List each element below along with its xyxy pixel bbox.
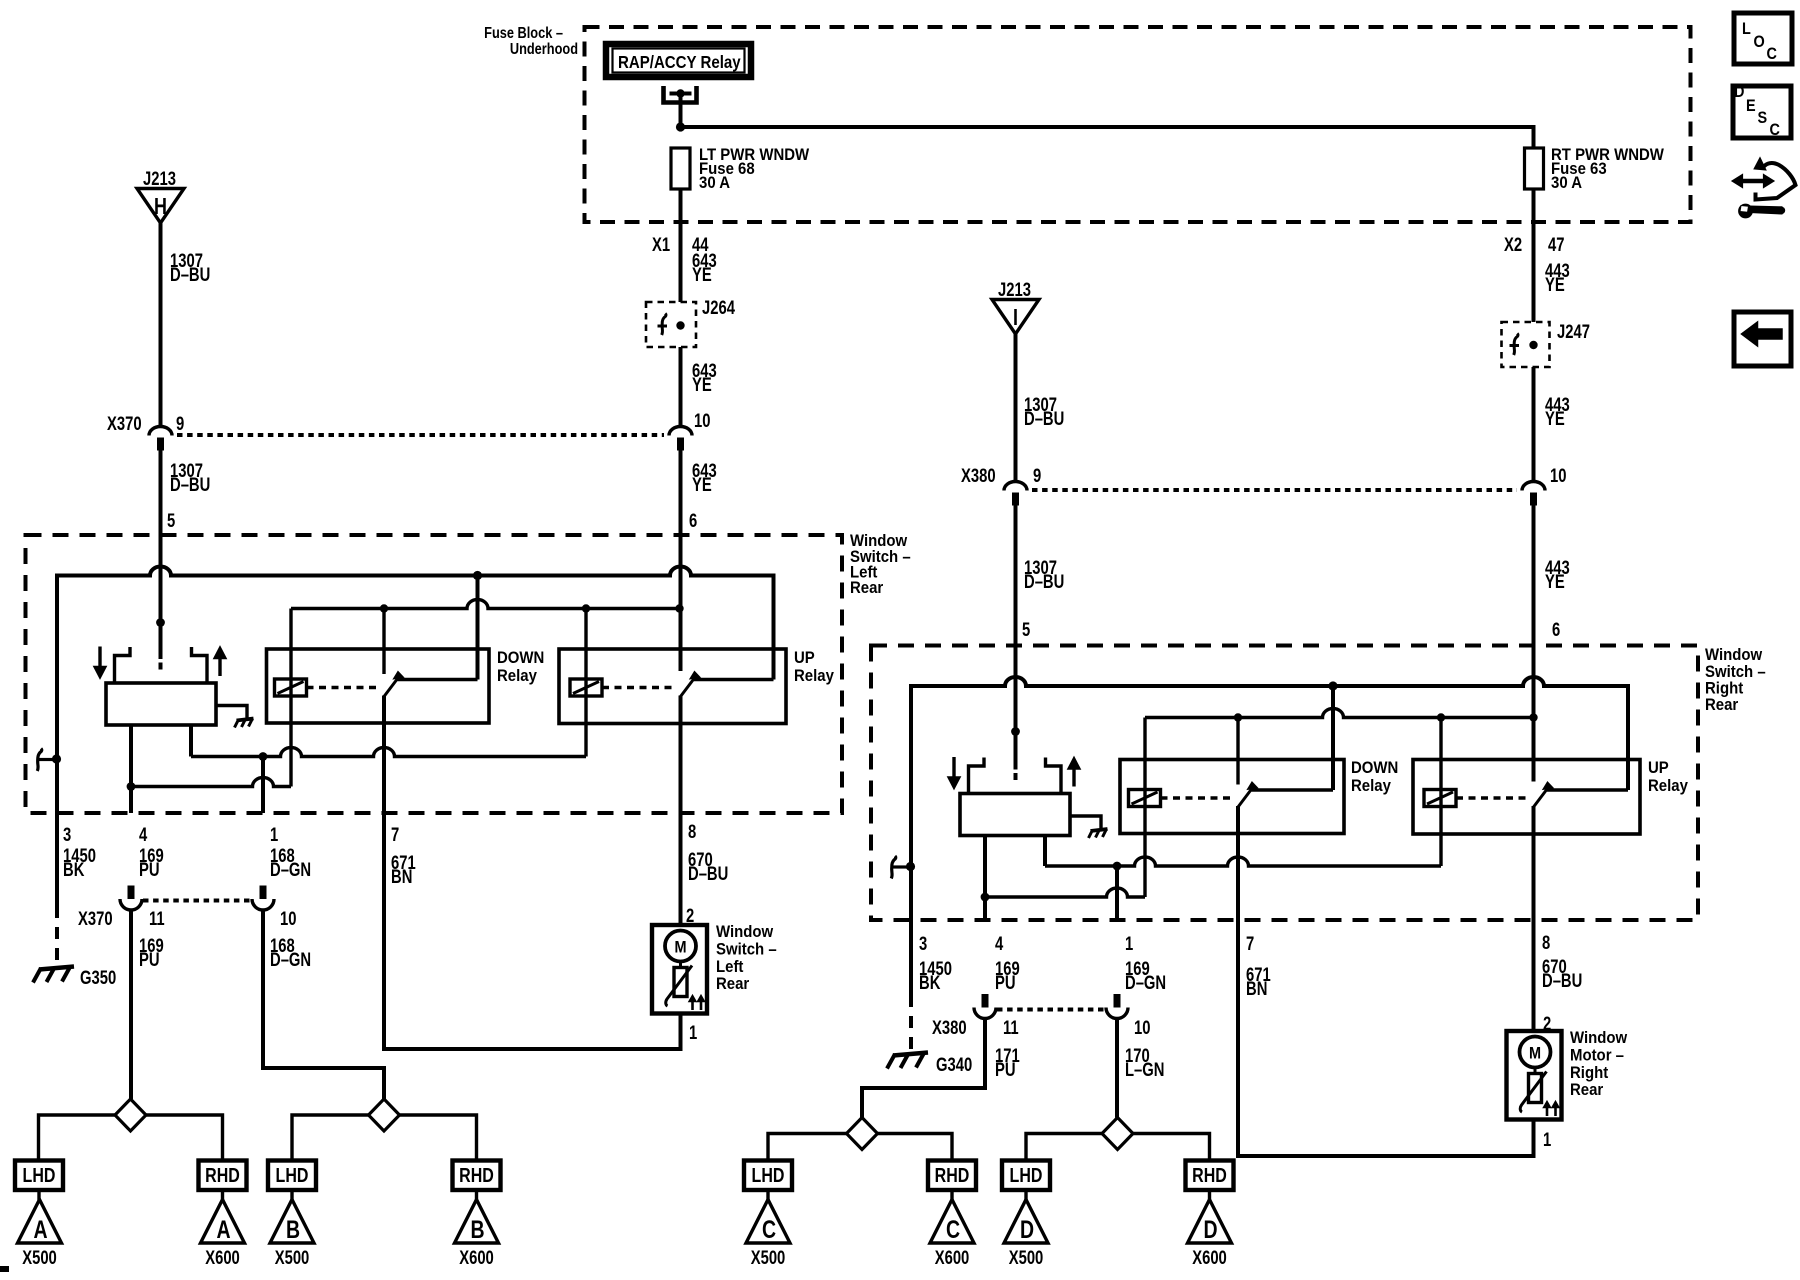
connector LHD (D) bbox=[1002, 1161, 1050, 1191]
svg-text:E: E bbox=[1746, 97, 1756, 115]
node C X600 triangle bbox=[930, 1200, 974, 1269]
splice diamond B bbox=[369, 1099, 400, 1131]
splice diamond D bbox=[1102, 1118, 1133, 1150]
wire: pin 3 to G350 bbox=[55, 813, 59, 968]
svg-text:M: M bbox=[1529, 1044, 1541, 1062]
right switch pin number labels bbox=[919, 932, 1550, 954]
DOWN relay contact fixed terminal (right) bbox=[1252, 788, 1334, 791]
wire: J264 to connector pin 10 bbox=[679, 347, 683, 427]
LOC icon box bbox=[1734, 13, 1792, 64]
svg-text:X600: X600 bbox=[1192, 1247, 1227, 1268]
splice J264 bbox=[646, 297, 735, 347]
wire: DOWN relay output to pin 7 (right) bbox=[1236, 806, 1240, 920]
wire: RHD-D to triangle bbox=[1208, 1190, 1211, 1200]
svg-text:Relay: Relay bbox=[794, 667, 834, 685]
node B X500 triangle bbox=[270, 1200, 314, 1269]
wire: pin 6 feed through to UP relay NC bbox=[679, 535, 683, 671]
svg-text:LHD: LHD bbox=[276, 1164, 309, 1186]
UP relay contact fixed terminal bbox=[694, 678, 774, 681]
svg-text:RHD: RHD bbox=[459, 1164, 494, 1186]
back arrow icon box bbox=[1734, 312, 1791, 366]
svg-text:D: D bbox=[1734, 83, 1744, 101]
svg-text:J264: J264 bbox=[702, 297, 735, 318]
svg-text:X600: X600 bbox=[205, 1247, 240, 1268]
svg-text:YE: YE bbox=[1545, 571, 1565, 592]
wire label 443 YE (above J247) bbox=[1545, 260, 1570, 295]
wire: LHD-D to triangle bbox=[1024, 1190, 1027, 1200]
wire: diamond A to RHD bbox=[146, 1115, 223, 1161]
svg-text:H: H bbox=[154, 194, 167, 220]
wire: LHD-C to triangle bbox=[766, 1190, 769, 1200]
connector X370 lower labels bbox=[78, 908, 296, 929]
wire: UP relay output to pin 8 (right) bbox=[1532, 806, 1536, 920]
UP relay contact arm (right) bbox=[1534, 782, 1554, 807]
splice hook on ground leg (right box) bbox=[891, 856, 915, 879]
svg-text:7: 7 bbox=[1246, 933, 1254, 954]
window switch right rear label bbox=[1705, 646, 1766, 714]
wire: 169 PU to splice diamond A bbox=[129, 910, 133, 1099]
window motor left rear label bbox=[716, 923, 777, 993]
svg-text:BN: BN bbox=[1246, 978, 1267, 999]
wire 1450 BK labels (right) bbox=[919, 958, 952, 993]
node J213 (I) bbox=[992, 279, 1039, 334]
node A X500 triangle bbox=[18, 1200, 62, 1269]
connector X380 lower labels bbox=[932, 1017, 1150, 1038]
window switch right rear dashed box bbox=[871, 646, 1698, 921]
UP relay mechanical link bbox=[602, 686, 673, 689]
wire: 671 BN pin 7 to right motor bbox=[1238, 920, 1534, 1156]
DOWN relay NC terminal stub (right) bbox=[1236, 718, 1239, 785]
svg-text:C: C bbox=[1770, 121, 1780, 139]
wire: rocker A output to pin 4 bbox=[127, 725, 136, 813]
wire: LHD-A to triangle bbox=[37, 1190, 40, 1200]
DESC icon box bbox=[1733, 83, 1791, 139]
rocker switch up arrow bbox=[215, 648, 225, 676]
fuse F63 RT PWR WNDW 30A bbox=[1525, 146, 1665, 192]
svg-text:YE: YE bbox=[692, 374, 712, 395]
RAP/ACCY relay contact bbox=[664, 86, 697, 127]
svg-text:1: 1 bbox=[689, 1022, 697, 1043]
DOWN relay box (right) bbox=[1120, 760, 1344, 834]
ground G350 bbox=[33, 967, 116, 989]
wire 670 D-BU labels (right) bbox=[1542, 956, 1582, 991]
UP relay coil bbox=[570, 679, 602, 696]
svg-text:RAP/ACCY Relay: RAP/ACCY Relay bbox=[618, 53, 741, 72]
wire: pin 3 to G340 bbox=[909, 920, 913, 1054]
svg-text:3: 3 bbox=[919, 933, 927, 954]
svg-text:5: 5 bbox=[167, 510, 175, 531]
wire: diamond D to LHD bbox=[1026, 1134, 1102, 1161]
svg-text:C: C bbox=[762, 1216, 776, 1244]
wire: diamond D to RHD bbox=[1133, 1134, 1210, 1161]
wire: rocker A output to pin 4 (right) bbox=[981, 836, 990, 921]
wire: RHD-A to triangle bbox=[221, 1190, 224, 1200]
svg-text:X380: X380 bbox=[961, 465, 996, 486]
wire: diamond A to LHD bbox=[39, 1115, 116, 1161]
svg-text:10: 10 bbox=[1134, 1017, 1150, 1038]
wire: RHD-C to triangle bbox=[950, 1190, 953, 1200]
svg-text:Relay: Relay bbox=[1351, 777, 1391, 795]
wire: coil supply line (right box) bbox=[1145, 709, 1538, 722]
svg-text:3: 3 bbox=[63, 824, 71, 845]
svg-text:BK: BK bbox=[919, 972, 941, 993]
svg-text:Right: Right bbox=[1705, 680, 1744, 698]
svg-text:LHD: LHD bbox=[752, 1164, 785, 1186]
UP relay coil (right) bbox=[1424, 790, 1456, 807]
rocker switch left contact bbox=[115, 647, 131, 683]
svg-text:RHD: RHD bbox=[1192, 1164, 1227, 1186]
UP relay box (right) bbox=[1413, 760, 1640, 835]
svg-text:D–BU: D–BU bbox=[1024, 571, 1064, 592]
wire: pin 1 drop (right) bbox=[1115, 866, 1119, 920]
wire: ground leg to pin 3 (right) bbox=[909, 867, 913, 921]
svg-text:11: 11 bbox=[1003, 1017, 1019, 1038]
svg-text:C: C bbox=[946, 1216, 960, 1244]
svg-text:PU: PU bbox=[995, 972, 1016, 993]
wire: 170 L-GN to splice diamond D bbox=[1115, 1019, 1119, 1118]
svg-text:1: 1 bbox=[1125, 933, 1133, 954]
DOWN Relay label (right) bbox=[1351, 759, 1398, 795]
svg-text:PU: PU bbox=[139, 859, 160, 880]
svg-text:YE: YE bbox=[692, 264, 712, 285]
svg-text:L–GN: L–GN bbox=[1125, 1059, 1164, 1080]
connector pin 10 (right harness) bbox=[1522, 465, 1566, 505]
wire 170 L-GN labels (below X380) bbox=[1125, 1045, 1164, 1080]
wire: rocker B output bbox=[189, 725, 193, 757]
wire: pin 8 to left motor pin 2 bbox=[681, 813, 695, 926]
svg-text:YE: YE bbox=[1545, 274, 1565, 295]
svg-text:C: C bbox=[1767, 45, 1777, 63]
svg-text:X600: X600 bbox=[935, 1247, 970, 1268]
svg-text:8: 8 bbox=[688, 821, 696, 842]
node: bus to DOWN relay riser bbox=[473, 571, 482, 680]
wire 670 D-BU labels (left) bbox=[688, 849, 728, 884]
svg-text:10: 10 bbox=[694, 410, 710, 431]
rocker switch right contact (right) bbox=[1046, 758, 1062, 794]
svg-text:X500: X500 bbox=[275, 1247, 310, 1268]
svg-text:X500: X500 bbox=[22, 1247, 57, 1268]
window motor right rear label bbox=[1570, 1029, 1628, 1099]
svg-text:X600: X600 bbox=[459, 1247, 494, 1268]
svg-text:A: A bbox=[216, 1216, 230, 1244]
wire label 643 YE (below J264) bbox=[692, 360, 717, 395]
svg-text:G340: G340 bbox=[936, 1054, 972, 1075]
svg-text:D–BU: D–BU bbox=[1542, 970, 1582, 991]
wire 169 PU labels (below X370) bbox=[139, 935, 164, 970]
wire label 643 YE (above J264) bbox=[692, 250, 717, 285]
svg-text:YE: YE bbox=[1545, 408, 1565, 429]
connector LHD (B) bbox=[268, 1161, 316, 1191]
svg-text:5: 5 bbox=[1022, 619, 1030, 640]
fuse block label bbox=[484, 25, 578, 59]
svg-text:BN: BN bbox=[391, 866, 412, 887]
node: bus to DOWN relay riser (right) bbox=[1328, 681, 1337, 790]
DOWN Relay label (left) bbox=[497, 649, 544, 685]
wire: DOWN relay coil feed column bbox=[289, 609, 292, 787]
node D X600 triangle bbox=[1188, 1200, 1232, 1269]
splice hook on ground leg (left box) bbox=[37, 749, 61, 772]
wire: pin 8 to right motor pin 2 bbox=[1534, 920, 1552, 1034]
window switch left rear dashed box bbox=[26, 535, 843, 813]
wire: 671 BN pin 7 to left motor bbox=[384, 813, 681, 1049]
svg-text:UP: UP bbox=[1648, 759, 1669, 777]
svg-text:Underhood: Underhood bbox=[510, 41, 578, 59]
rocker switch ground bbox=[216, 706, 254, 728]
wire: A output to DOWN relay coil (right) bbox=[985, 888, 1145, 897]
svg-text:D–BU: D–BU bbox=[688, 863, 728, 884]
node C X500 triangle bbox=[746, 1200, 790, 1269]
wire: internal feed bus (left box) bbox=[57, 567, 774, 759]
wire: LHD-B to triangle bbox=[290, 1190, 293, 1200]
fuse F68 LT PWR WNDW 30A bbox=[671, 146, 810, 192]
svg-text:BK: BK bbox=[63, 859, 85, 880]
svg-text:Rear: Rear bbox=[850, 579, 883, 597]
wire 1450 BK labels (left) bbox=[63, 845, 96, 880]
wire: A output to DOWN relay coil bbox=[131, 778, 291, 787]
connector X370 pin 9 bbox=[107, 413, 184, 450]
svg-text:Switch –: Switch – bbox=[716, 941, 777, 959]
svg-text:7: 7 bbox=[391, 824, 399, 845]
wire: diamond B to LHD bbox=[292, 1115, 369, 1161]
switch feed node (pin 5 wire into rocker) bbox=[156, 618, 165, 669]
svg-text:X370: X370 bbox=[78, 908, 113, 929]
svg-text:RHD: RHD bbox=[205, 1164, 240, 1186]
adjust icon: hand outline bbox=[1754, 158, 1796, 200]
adjust icon: wrench bbox=[1738, 204, 1785, 219]
window motor left rear (motor M1) bbox=[652, 925, 707, 1014]
rocker switch right contact bbox=[192, 647, 208, 683]
svg-text:4: 4 bbox=[139, 824, 148, 845]
wire 171 PU labels (below X380) bbox=[995, 1045, 1020, 1080]
connector X380 pin 10 (lower) bbox=[1106, 994, 1128, 1019]
svg-text:Window: Window bbox=[1570, 1029, 1628, 1047]
UP relay mechanical link (right) bbox=[1456, 796, 1527, 799]
UP relay box (left) bbox=[559, 649, 786, 724]
wire 643 YE to left switch pin 6 bbox=[681, 451, 717, 609]
wire 169 PU labels (left) bbox=[139, 845, 164, 880]
svg-text:O: O bbox=[1754, 33, 1765, 51]
wire 1307 D-BU from J213-I bbox=[1016, 334, 1065, 482]
svg-text:6: 6 bbox=[1552, 619, 1560, 640]
wire: 168 D-GN to splice diamond B bbox=[263, 910, 384, 1099]
wire: 171 PU to splice diamond C bbox=[862, 1019, 985, 1118]
svg-text:Right: Right bbox=[1570, 1064, 1609, 1082]
connector RHD (C) bbox=[928, 1161, 976, 1191]
rocker switch down arrow bbox=[95, 647, 105, 678]
DOWN relay mechanical link (right) bbox=[1161, 796, 1233, 799]
left motor pin 1 label bbox=[689, 1022, 697, 1043]
svg-text:Rear: Rear bbox=[1570, 1081, 1603, 1099]
svg-text:Relay: Relay bbox=[1648, 777, 1688, 795]
svg-text:J247: J247 bbox=[1557, 321, 1590, 342]
connector LHD (C) bbox=[744, 1161, 792, 1191]
node B X600 triangle bbox=[455, 1200, 499, 1269]
svg-text:X500: X500 bbox=[1009, 1247, 1044, 1268]
splice diamond A bbox=[115, 1099, 146, 1131]
connector RHD (D) bbox=[1186, 1161, 1234, 1191]
svg-text:8: 8 bbox=[1542, 932, 1550, 953]
wire: UP relay output to pin 8 bbox=[679, 696, 683, 814]
wire: J247 to connector pin 10 bbox=[1532, 367, 1536, 482]
svg-text:D–BU: D–BU bbox=[170, 474, 210, 495]
connector RHD (B) bbox=[453, 1161, 501, 1191]
wire 169 PU labels (right) bbox=[995, 958, 1020, 993]
DOWN relay NC terminal stub bbox=[382, 609, 385, 675]
wire: feed bus to right fuse bbox=[681, 127, 1534, 148]
connector X380 pin 9 bbox=[961, 465, 1041, 505]
connector X370 pin 11 bbox=[120, 886, 142, 911]
UP Relay label (left) bbox=[794, 649, 834, 685]
connector LHD (A) bbox=[15, 1161, 63, 1191]
svg-text:30 A: 30 A bbox=[699, 174, 730, 192]
svg-text:4: 4 bbox=[995, 933, 1004, 954]
wire: pin 6 feed through to UP relay NC (right) bbox=[1532, 646, 1536, 782]
DOWN relay contact arm (right) bbox=[1238, 782, 1258, 807]
wire 1307 D-BU to right switch pin 5 bbox=[1016, 506, 1065, 732]
svg-text:X1: X1 bbox=[652, 234, 670, 255]
wire 671 BN labels (right) bbox=[1246, 964, 1271, 999]
wire 443 YE to right switch pin 6 bbox=[1534, 506, 1570, 718]
svg-text:PU: PU bbox=[139, 949, 160, 970]
wire: coil supply line (left box) bbox=[291, 600, 684, 613]
rocker switch up arrow (right) bbox=[1069, 759, 1079, 787]
wire: pin 1 drop bbox=[261, 757, 265, 814]
window switch left rear label bbox=[850, 532, 911, 597]
wire: rocker B output (right) bbox=[1043, 836, 1047, 867]
svg-text:YE: YE bbox=[692, 474, 712, 495]
svg-text:D–GN: D–GN bbox=[270, 859, 311, 880]
UP relay contact arm bbox=[681, 672, 701, 697]
wire: UP relay coil feed column bbox=[584, 609, 587, 757]
svg-text:30 A: 30 A bbox=[1551, 174, 1582, 192]
svg-text:X500: X500 bbox=[751, 1247, 786, 1268]
right motor pin 1 label bbox=[1543, 1129, 1551, 1150]
splice J247 bbox=[1502, 321, 1590, 367]
svg-text:DOWN: DOWN bbox=[497, 649, 544, 667]
wire: fuse 68 down to X1-44 bbox=[679, 189, 683, 302]
wire: DOWN relay coil feed column (right) bbox=[1143, 718, 1146, 898]
svg-text:X2: X2 bbox=[1504, 234, 1522, 255]
svg-text:LHD: LHD bbox=[23, 1164, 56, 1186]
wire: diamond B to RHD bbox=[400, 1115, 477, 1161]
connector RHD (A) bbox=[199, 1161, 247, 1191]
splice diamond C bbox=[847, 1118, 878, 1150]
wire: B output to UP relay coil bbox=[191, 748, 586, 761]
wire 168 D-GN labels (below X370) bbox=[270, 935, 311, 970]
svg-text:D: D bbox=[1020, 1216, 1034, 1244]
node J213 (H) bbox=[137, 168, 184, 223]
RAP/ACCY Relay K1 bbox=[606, 44, 751, 77]
wire 1307 D-BU to left switch pin 5 bbox=[161, 451, 211, 623]
rocker switch body (left) bbox=[106, 683, 216, 725]
svg-text:D–GN: D–GN bbox=[1125, 972, 1166, 993]
svg-text:PU: PU bbox=[995, 1059, 1016, 1080]
wire: UP relay coil feed column (right) bbox=[1439, 718, 1442, 867]
connector pin 10 (fuse block harness) bbox=[669, 410, 710, 450]
wire: diamond C to LHD bbox=[768, 1134, 847, 1161]
svg-text:Rear: Rear bbox=[716, 975, 749, 993]
svg-text:Left: Left bbox=[716, 958, 744, 976]
wire label 443 YE (below J247) bbox=[1545, 394, 1570, 429]
svg-text:RHD: RHD bbox=[935, 1164, 970, 1186]
connector X380 dashed seam (pins 9-10) bbox=[1032, 488, 1517, 492]
wire: internal feed bus (right box) bbox=[911, 677, 1628, 867]
svg-text:X370: X370 bbox=[107, 413, 142, 434]
svg-text:L: L bbox=[1742, 20, 1751, 38]
svg-text:D: D bbox=[1203, 1216, 1217, 1244]
svg-text:A: A bbox=[33, 1216, 47, 1244]
connector X1 pin 44 labels bbox=[652, 234, 709, 255]
svg-text:Window: Window bbox=[1705, 646, 1763, 664]
wire: diamond C to RHD bbox=[878, 1134, 953, 1161]
wire: fuse 63 down to J247 bbox=[1532, 189, 1536, 322]
svg-text:1: 1 bbox=[1543, 1129, 1551, 1150]
svg-text:LHD: LHD bbox=[1010, 1164, 1043, 1186]
svg-text:1: 1 bbox=[270, 824, 278, 845]
svg-text:DOWN: DOWN bbox=[1351, 759, 1398, 777]
svg-text:9: 9 bbox=[176, 413, 184, 434]
DOWN relay contact fixed terminal bbox=[398, 678, 478, 681]
fuse block dashed box bbox=[585, 27, 1691, 222]
connector X380 pin 11 bbox=[974, 994, 996, 1019]
svg-text:D–GN: D–GN bbox=[270, 949, 311, 970]
wire 168 D-GN labels (left) bbox=[270, 845, 311, 880]
connector X370 pin 10 bbox=[252, 886, 274, 911]
svg-text:Window: Window bbox=[716, 923, 774, 941]
wire 1307 D-BU from J213-H bbox=[161, 223, 211, 427]
svg-text:6: 6 bbox=[689, 510, 697, 531]
ground G340 bbox=[887, 1053, 972, 1076]
window motor right rear (motor M2) bbox=[1507, 1031, 1562, 1120]
svg-text:M: M bbox=[674, 938, 686, 956]
rocker switch down arrow (right) bbox=[949, 757, 959, 788]
svg-text:I: I bbox=[1013, 305, 1018, 331]
wire: RHD-B to triangle bbox=[475, 1190, 478, 1200]
svg-text:J213: J213 bbox=[143, 168, 176, 189]
svg-text:9: 9 bbox=[1033, 465, 1041, 486]
wire: ground leg to pin 3 bbox=[55, 759, 59, 814]
UP Relay label (right) bbox=[1648, 759, 1688, 795]
svg-text:B: B bbox=[286, 1216, 300, 1244]
svg-text:47: 47 bbox=[1548, 234, 1564, 255]
rocker switch ground (right) bbox=[1070, 816, 1108, 838]
connector X2 pin 47 labels bbox=[1504, 234, 1564, 255]
svg-text:10: 10 bbox=[280, 908, 296, 929]
svg-text:Motor –: Motor – bbox=[1570, 1047, 1624, 1065]
svg-text:B: B bbox=[470, 1216, 484, 1244]
wire 169 D-GN labels (right) bbox=[1125, 958, 1166, 993]
svg-text:S: S bbox=[1758, 109, 1768, 127]
adjust icon: double arrow bbox=[1732, 175, 1774, 188]
DOWN relay contact arm bbox=[384, 672, 404, 697]
svg-text:11: 11 bbox=[149, 908, 165, 929]
connector X370 dashed seam (pins 9-10) bbox=[177, 433, 664, 437]
switch feed node (pin 5 wire into right rocker) bbox=[1011, 727, 1020, 780]
connector X370 lower dashed seam bbox=[143, 899, 252, 903]
left switch pin number labels bbox=[63, 821, 696, 845]
UP relay contact fixed terminal (right) bbox=[1547, 788, 1628, 791]
svg-text:10: 10 bbox=[1550, 465, 1566, 486]
wire 671 BN labels (left) bbox=[391, 852, 416, 887]
svg-text:D–BU: D–BU bbox=[1024, 408, 1064, 429]
svg-text:X380: X380 bbox=[932, 1017, 967, 1038]
svg-text:Switch –: Switch – bbox=[1705, 663, 1766, 681]
DOWN relay coil (right) bbox=[1129, 790, 1161, 807]
svg-text:D–BU: D–BU bbox=[170, 264, 210, 285]
svg-text:G350: G350 bbox=[80, 967, 116, 988]
svg-text:J213: J213 bbox=[998, 279, 1031, 300]
wire: B output to UP relay coil (right) bbox=[1045, 857, 1441, 870]
